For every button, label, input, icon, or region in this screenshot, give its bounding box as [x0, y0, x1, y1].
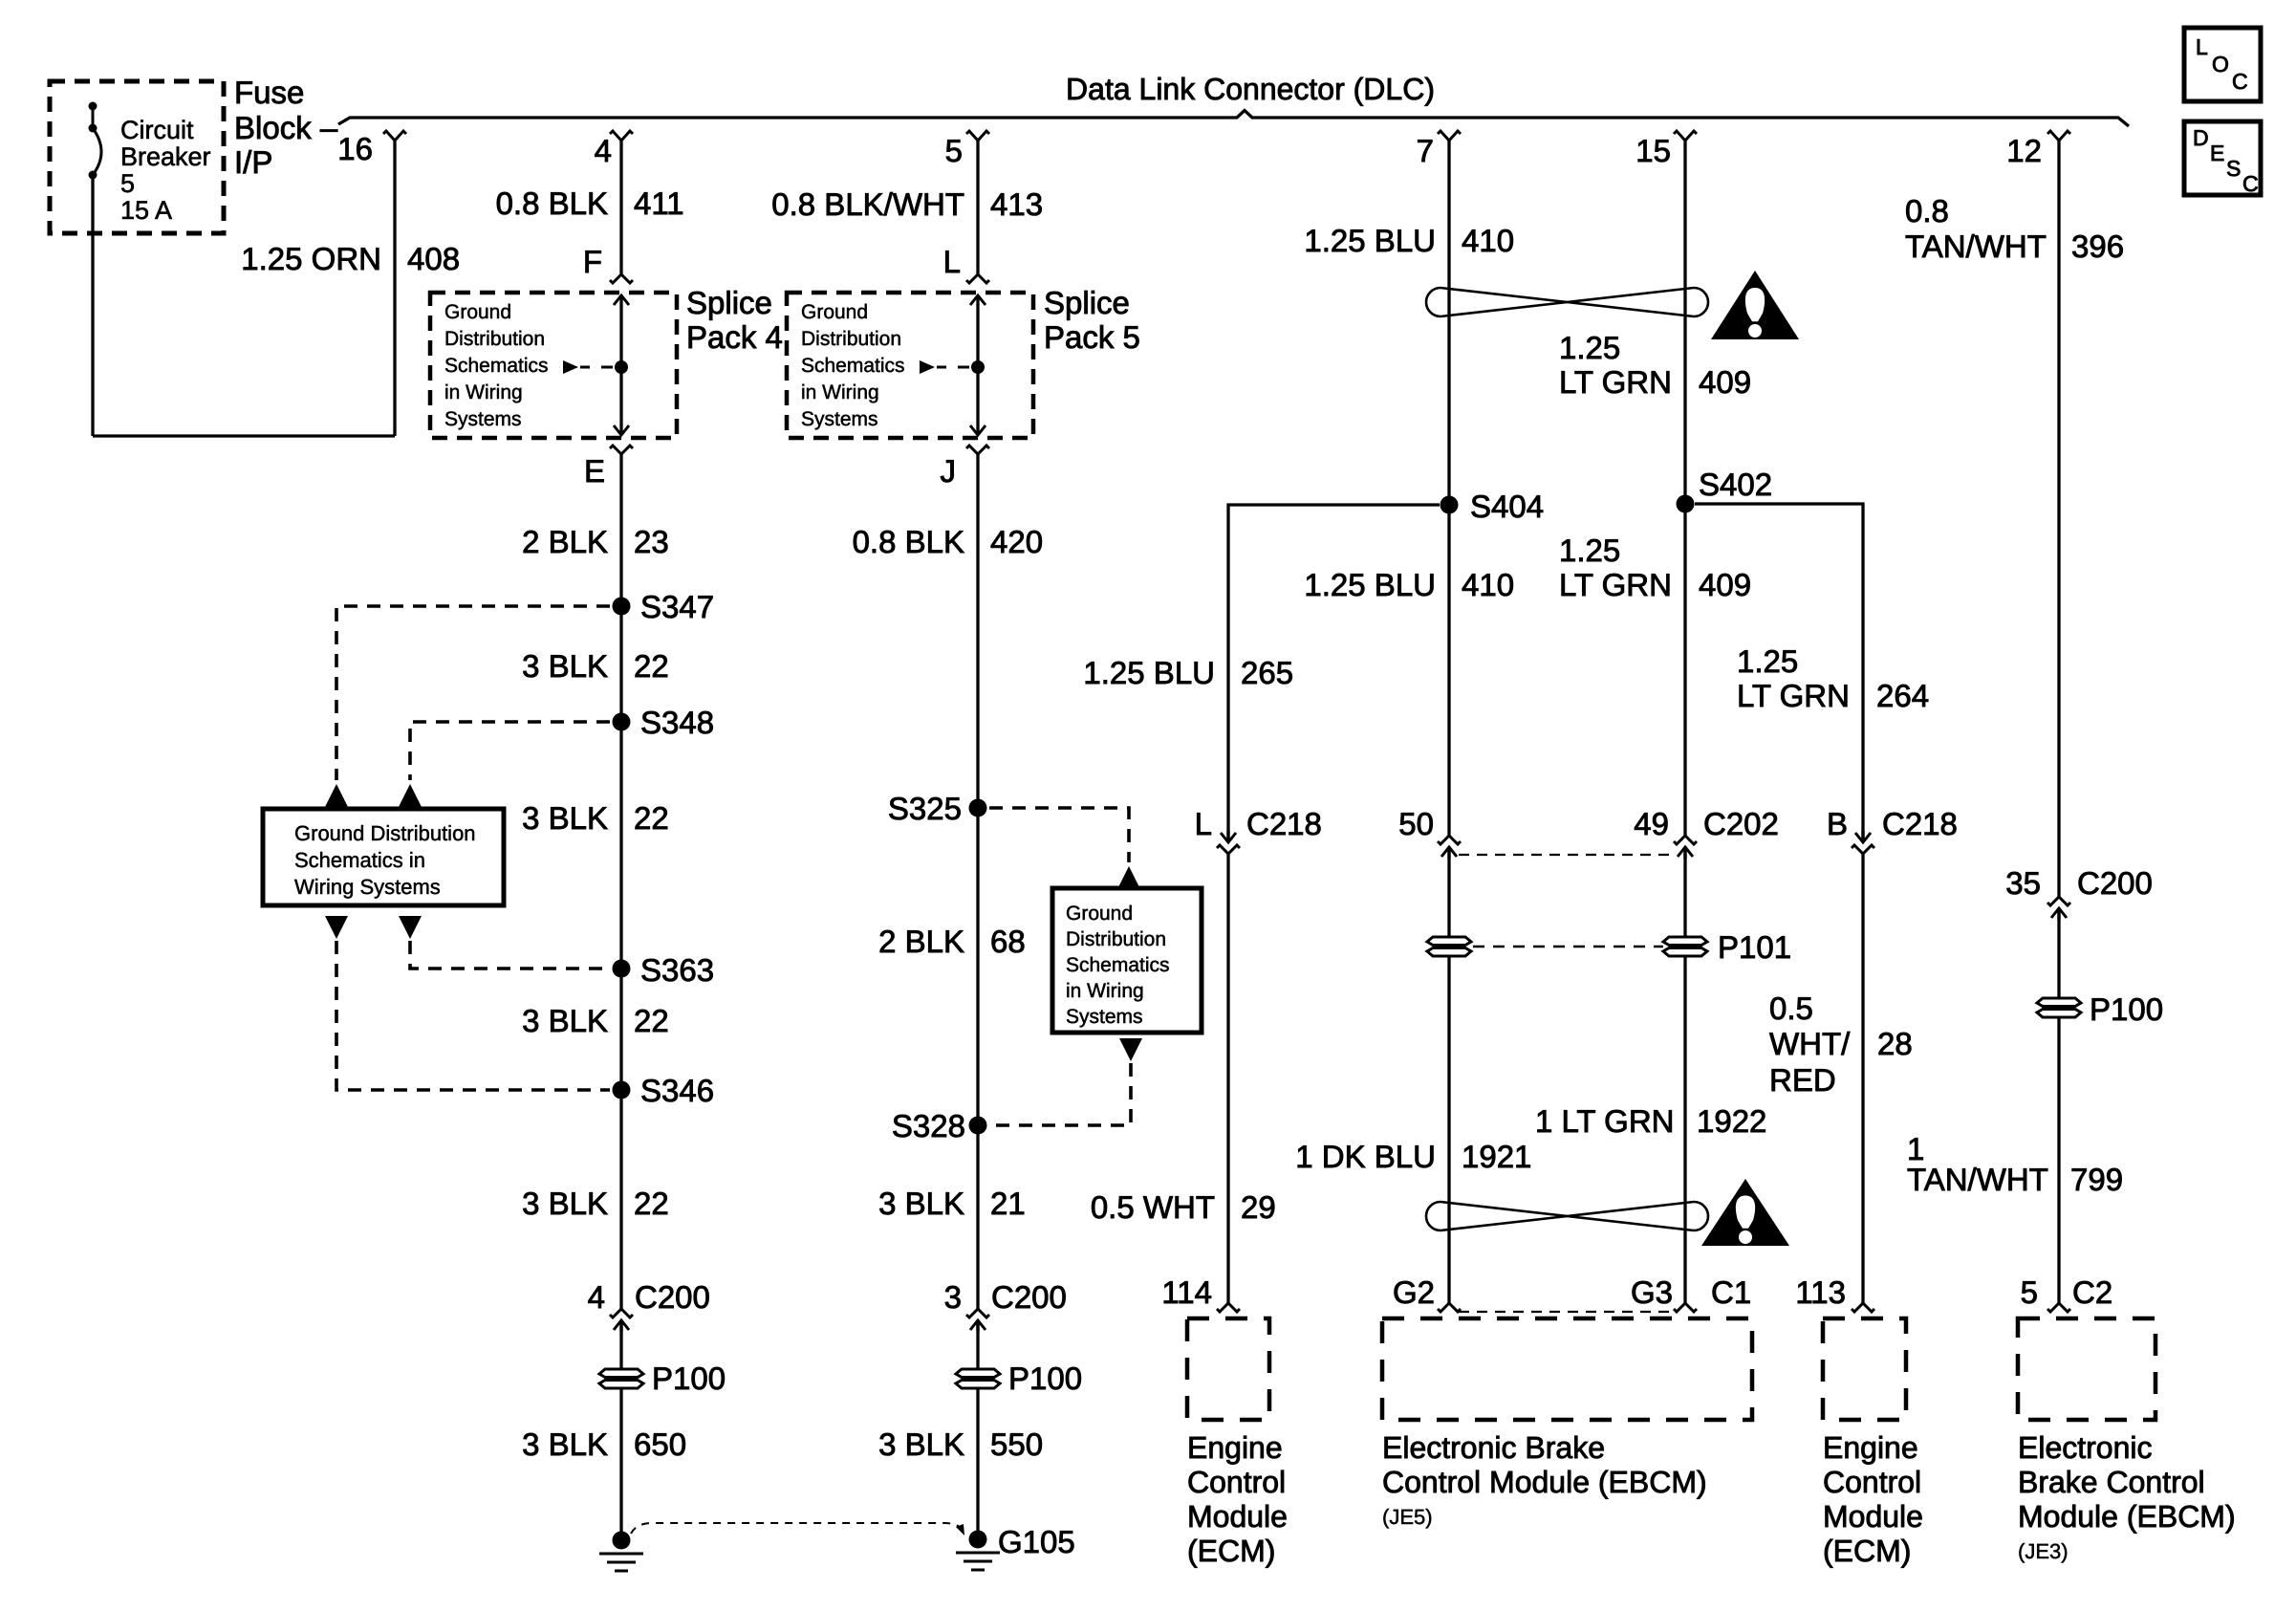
svg-text:Engine: Engine	[1187, 1430, 1283, 1465]
svg-text:68: 68	[990, 924, 1026, 959]
svg-text:5: 5	[2021, 1274, 2038, 1310]
svg-text:22: 22	[634, 1003, 669, 1038]
svg-text:420: 420	[990, 524, 1043, 559]
svg-text:Schematics: Schematics	[1066, 954, 1170, 976]
svg-text:4: 4	[588, 1279, 605, 1315]
svg-text:2 BLK: 2 BLK	[522, 524, 608, 559]
svg-text:410: 410	[1462, 567, 1514, 602]
svg-text:P100: P100	[2090, 991, 2163, 1027]
svg-text:1.25 BLU: 1.25 BLU	[1304, 223, 1436, 258]
svg-text:1 LT GRN: 1 LT GRN	[1535, 1103, 1675, 1139]
svg-text:3 BLK: 3 BLK	[878, 1186, 964, 1221]
svg-text:Ground: Ground	[444, 301, 511, 323]
svg-text:1922: 1922	[1697, 1103, 1766, 1139]
svg-text:15: 15	[1635, 133, 1671, 168]
svg-text:(ECM): (ECM)	[1823, 1534, 1911, 1568]
svg-text:16: 16	[337, 131, 373, 166]
svg-text:S325: S325	[888, 791, 962, 826]
svg-text:4: 4	[595, 133, 612, 168]
svg-text:Distribution: Distribution	[1066, 928, 1166, 950]
svg-text:S363: S363	[640, 952, 714, 988]
svg-text:S404: S404	[1470, 489, 1544, 524]
svg-text:113: 113	[1795, 1274, 1846, 1310]
svg-text:WHT/: WHT/	[1769, 1026, 1851, 1061]
svg-text:3 BLK: 3 BLK	[878, 1426, 964, 1462]
svg-text:0.8 BLK: 0.8 BLK	[496, 185, 608, 221]
svg-text:1.25 BLU: 1.25 BLU	[1304, 567, 1436, 602]
svg-text:23: 23	[634, 524, 669, 559]
svg-text:49: 49	[1634, 806, 1669, 841]
svg-text:408: 408	[407, 241, 460, 276]
svg-text:3 BLK: 3 BLK	[522, 648, 608, 684]
svg-text:E: E	[2210, 141, 2224, 165]
svg-text:Splice: Splice	[686, 285, 772, 320]
svg-text:C2: C2	[2072, 1274, 2112, 1310]
svg-text:(JE5): (JE5)	[1382, 1505, 1433, 1529]
svg-text:Systems: Systems	[444, 408, 522, 430]
svg-text:Data Link Connector (DLC): Data Link Connector (DLC)	[1066, 72, 1435, 106]
svg-text:S346: S346	[640, 1073, 714, 1108]
svg-text:P101: P101	[1718, 929, 1791, 965]
svg-text:C1: C1	[1711, 1274, 1751, 1310]
svg-text:1.25: 1.25	[1559, 330, 1620, 365]
svg-text:Pack 4: Pack 4	[686, 319, 783, 355]
svg-text:Systems: Systems	[801, 408, 878, 430]
svg-text:C218: C218	[1882, 806, 1958, 841]
svg-text:C: C	[2242, 171, 2259, 196]
svg-text:Schematics: Schematics	[801, 355, 905, 377]
svg-text:O: O	[2212, 52, 2229, 76]
svg-text:Circuit: Circuit	[120, 116, 194, 144]
svg-text:Control: Control	[1187, 1465, 1286, 1499]
svg-text:396: 396	[2071, 229, 2124, 264]
svg-text:Block –: Block –	[234, 110, 338, 145]
svg-text:I/P: I/P	[234, 144, 272, 180]
svg-text:409: 409	[1699, 567, 1751, 602]
svg-text:Control: Control	[1823, 1465, 1921, 1499]
svg-text:550: 550	[990, 1426, 1043, 1462]
svg-text:S328: S328	[892, 1108, 965, 1143]
svg-text:Wiring Systems: Wiring Systems	[294, 875, 441, 899]
svg-text:TAN/WHT: TAN/WHT	[1907, 1162, 2048, 1197]
svg-text:LT GRN: LT GRN	[1559, 567, 1672, 602]
svg-text:Fuse: Fuse	[234, 75, 304, 110]
svg-text:12: 12	[2006, 133, 2042, 168]
svg-text:Schematics: Schematics	[444, 355, 549, 377]
svg-text:Schematics in: Schematics in	[294, 848, 425, 872]
svg-text:Electronic Brake: Electronic Brake	[1382, 1430, 1605, 1465]
svg-text:0.8: 0.8	[1905, 193, 1949, 229]
svg-text:0.8 BLK/WHT: 0.8 BLK/WHT	[771, 186, 964, 222]
svg-text:3 BLK: 3 BLK	[522, 1426, 608, 1462]
svg-text:C200: C200	[991, 1279, 1067, 1315]
svg-text:29: 29	[1241, 1189, 1276, 1225]
svg-text:LT GRN: LT GRN	[1737, 678, 1850, 713]
svg-text:650: 650	[634, 1426, 686, 1462]
svg-text:G105: G105	[998, 1524, 1075, 1559]
svg-text:in Wiring: in Wiring	[801, 381, 879, 403]
svg-text:0.5: 0.5	[1769, 991, 1813, 1026]
svg-text:409: 409	[1699, 364, 1751, 400]
svg-text:22: 22	[634, 1186, 669, 1221]
svg-text:S348: S348	[640, 705, 714, 740]
svg-text:1.25: 1.25	[1559, 533, 1620, 568]
svg-text:35: 35	[2005, 865, 2041, 901]
svg-text:Systems: Systems	[1066, 1006, 1143, 1028]
svg-text:C200: C200	[2077, 865, 2153, 901]
svg-text:C218: C218	[1246, 806, 1322, 841]
svg-text:5: 5	[945, 133, 963, 168]
svg-text:D: D	[2193, 125, 2209, 150]
svg-text:P100: P100	[1008, 1361, 1082, 1396]
svg-text:Ground: Ground	[801, 301, 868, 323]
svg-text:Brake Control: Brake Control	[2018, 1465, 2205, 1499]
svg-text:L: L	[943, 244, 961, 279]
svg-text:G2: G2	[1393, 1274, 1435, 1310]
svg-text:21: 21	[990, 1186, 1026, 1221]
svg-text:Distribution: Distribution	[444, 328, 545, 350]
svg-text:Engine: Engine	[1823, 1430, 1918, 1465]
svg-text:0.5 WHT: 0.5 WHT	[1091, 1189, 1215, 1225]
svg-text:in Wiring: in Wiring	[1066, 980, 1144, 1002]
svg-text:L: L	[1195, 806, 1212, 841]
svg-text:22: 22	[634, 800, 669, 836]
svg-text:S402: S402	[1699, 467, 1772, 502]
svg-text:799: 799	[2070, 1162, 2123, 1197]
svg-text:3: 3	[944, 1279, 962, 1315]
svg-text:C200: C200	[635, 1279, 710, 1315]
svg-text:1921: 1921	[1462, 1139, 1531, 1174]
svg-text:2 BLK: 2 BLK	[878, 924, 964, 959]
svg-text:(JE3): (JE3)	[2018, 1539, 2069, 1563]
svg-text:Electronic: Electronic	[2018, 1430, 2153, 1465]
svg-text:Breaker: Breaker	[120, 142, 211, 171]
svg-text:3 BLK: 3 BLK	[522, 1186, 608, 1221]
svg-text:265: 265	[1241, 655, 1293, 690]
svg-text:413: 413	[990, 186, 1043, 222]
svg-text:114: 114	[1161, 1274, 1212, 1310]
svg-text:5: 5	[120, 169, 135, 198]
svg-text:50: 50	[1398, 806, 1434, 841]
svg-text:1.25 BLU: 1.25 BLU	[1083, 655, 1215, 690]
svg-text:1.25: 1.25	[1737, 643, 1798, 679]
svg-text:C: C	[2232, 69, 2248, 94]
svg-text:S347: S347	[640, 589, 714, 624]
svg-text:28: 28	[1877, 1026, 1913, 1061]
svg-text:G3: G3	[1631, 1274, 1673, 1310]
svg-text:(ECM): (ECM)	[1187, 1534, 1275, 1568]
svg-text:TAN/WHT: TAN/WHT	[1905, 229, 2047, 264]
svg-text:L: L	[2196, 34, 2208, 59]
svg-text:Control Module (EBCM): Control Module (EBCM)	[1382, 1465, 1707, 1499]
svg-text:Module (EBCM): Module (EBCM)	[2018, 1499, 2236, 1534]
svg-text:1 DK BLU: 1 DK BLU	[1295, 1139, 1436, 1174]
svg-text:LT GRN: LT GRN	[1559, 364, 1672, 400]
svg-text:Distribution: Distribution	[801, 328, 901, 350]
svg-text:Ground: Ground	[1066, 903, 1133, 925]
svg-text:S: S	[2226, 156, 2241, 181]
svg-text:0.8 BLK: 0.8 BLK	[853, 524, 964, 559]
svg-text:RED: RED	[1769, 1062, 1836, 1098]
svg-text:C202: C202	[1703, 806, 1779, 841]
svg-text:Module: Module	[1823, 1499, 1923, 1534]
svg-text:Pack 5: Pack 5	[1044, 319, 1140, 355]
svg-text:in Wiring: in Wiring	[444, 381, 523, 403]
svg-text:22: 22	[634, 648, 669, 684]
svg-text:F: F	[583, 244, 602, 279]
svg-text:3 BLK: 3 BLK	[522, 1003, 608, 1038]
svg-text:7: 7	[1417, 133, 1434, 168]
svg-text:P100: P100	[652, 1361, 726, 1396]
svg-text:Ground Distribution: Ground Distribution	[294, 821, 476, 845]
svg-text:J: J	[941, 453, 957, 489]
svg-text:3 BLK: 3 BLK	[522, 800, 608, 836]
svg-text:410: 410	[1462, 223, 1514, 258]
svg-text:1.25 ORN: 1.25 ORN	[241, 241, 381, 276]
svg-text:B: B	[1827, 806, 1848, 841]
svg-text:264: 264	[1876, 678, 1929, 713]
svg-text:Module: Module	[1187, 1499, 1288, 1534]
svg-text:E: E	[584, 453, 605, 489]
svg-text:15 A: 15 A	[120, 196, 172, 225]
svg-text:411: 411	[634, 185, 684, 221]
svg-text:Splice: Splice	[1044, 285, 1130, 320]
